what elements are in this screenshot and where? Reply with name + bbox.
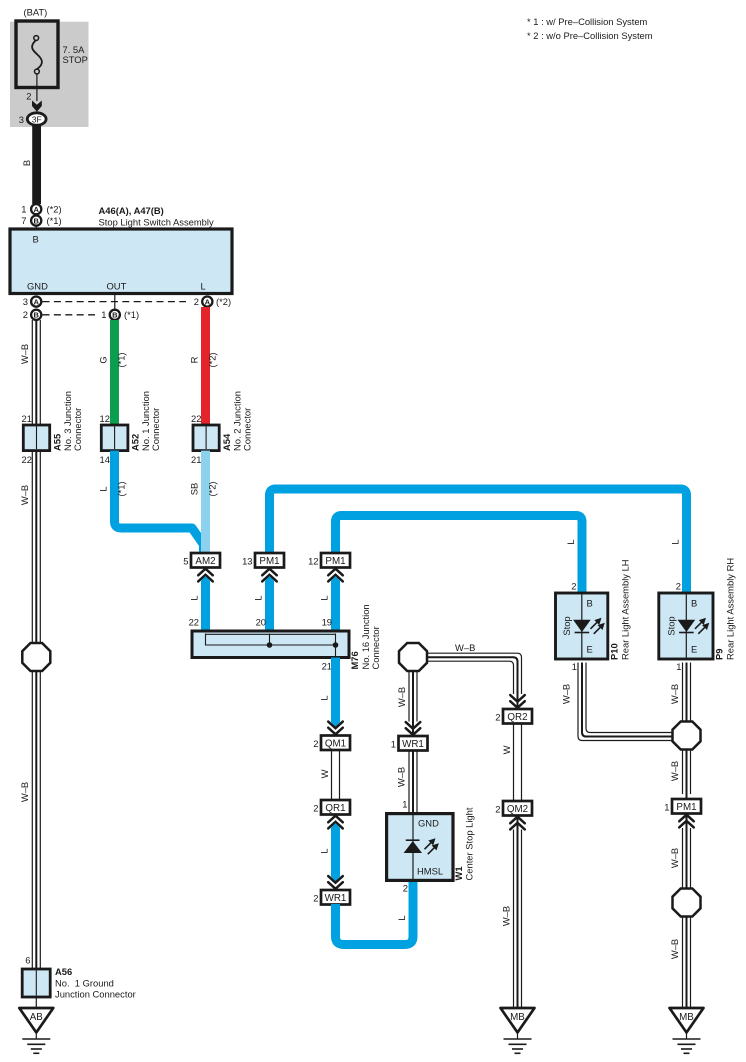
wire W-B splice to QR2 — [426, 653, 522, 709]
wire L AM2 to M76 — [201, 576, 210, 631]
svg-text:PM1: PM1 — [676, 802, 696, 813]
svg-text:Connector: Connector — [242, 408, 253, 451]
wire W-B PM1 to splice 2 — [683, 814, 691, 890]
svg-text:MB: MB — [510, 1012, 525, 1023]
svg-text:1: 1 — [572, 661, 577, 672]
svg-text:B: B — [691, 598, 697, 609]
arrow chevrons up at QR1 — [328, 816, 343, 829]
svg-text:3F: 3F — [32, 114, 42, 124]
dashed link pin 2B to pin 1B — [43, 314, 96, 316]
svg-text:QM1: QM1 — [325, 738, 346, 749]
svg-text:* 1 : w/ Pre–Collision System: * 1 : w/ Pre–Collision System — [527, 16, 648, 27]
wire L from A52 to AM2 (*1) — [115, 451, 204, 553]
svg-text:W: W — [501, 745, 512, 754]
svg-text:Connector: Connector — [72, 408, 83, 451]
svg-text:P10: P10 — [609, 643, 620, 660]
svg-text:A52: A52 — [130, 434, 141, 451]
svg-text:QR1: QR1 — [325, 803, 345, 814]
wire L PM1-12 to M76 — [331, 576, 340, 631]
connector PM1-12 — [321, 553, 350, 568]
svg-text:(*1): (*1) — [116, 481, 127, 496]
wire G from switch OUT (*1) — [110, 320, 119, 425]
svg-text:2: 2 — [495, 712, 500, 723]
svg-text:W–B: W–B — [19, 782, 30, 802]
junction dot M76 pin20 — [267, 642, 273, 648]
svg-text:GND: GND — [418, 818, 439, 829]
svg-text:Rear Light Assembly LH: Rear Light Assembly LH — [620, 559, 631, 660]
LED of P10 — [573, 620, 591, 632]
internal bus of M76 — [206, 634, 336, 657]
svg-text:1: 1 — [402, 799, 407, 810]
svg-text:21: 21 — [322, 661, 332, 672]
svg-text:22: 22 — [189, 617, 199, 628]
svg-text:W–B: W–B — [19, 485, 30, 505]
wire W-B P9 down — [683, 663, 691, 723]
svg-text:W–B: W–B — [455, 642, 475, 653]
connector A55 No.3 Junction Connector — [23, 425, 49, 451]
svg-text:Connector: Connector — [150, 408, 161, 451]
connector AM2 — [191, 553, 220, 568]
wire fuse to connector 3F — [36, 74, 38, 101]
svg-text:19: 19 — [322, 617, 332, 628]
svg-text:STOP: STOP — [63, 54, 88, 65]
svg-text:A54: A54 — [221, 433, 232, 451]
wire L trunk PM1-13 to P9 — [270, 489, 687, 593]
svg-text:(*2): (*2) — [216, 296, 231, 307]
wire L WR1 to W1 pin 2 — [336, 881, 414, 945]
svg-text:14: 14 — [100, 454, 110, 465]
wire W-B P10 to splice — [578, 663, 673, 741]
svg-text:W1: W1 — [453, 866, 464, 880]
svg-text:Stop Light Switch Assembly: Stop Light Switch Assembly — [99, 217, 214, 228]
svg-text:(BAT): (BAT) — [24, 7, 48, 18]
svg-text:B: B — [112, 311, 118, 320]
wire W-B splice to WR1-1 — [409, 671, 417, 736]
svg-text:1: 1 — [101, 309, 106, 320]
connector A54 No.2 Junction Connector — [193, 425, 219, 451]
LED of W1 — [404, 841, 422, 853]
svg-text:2: 2 — [313, 803, 318, 814]
svg-text:* 2 : w/o Pre–Collision System: * 2 : w/o Pre–Collision System — [527, 30, 653, 41]
arrow chevrons down at QR2 — [510, 695, 525, 708]
svg-text:3: 3 — [23, 296, 28, 307]
svg-text:2: 2 — [403, 883, 408, 894]
tick OUT pin — [114, 294, 116, 310]
svg-text:B: B — [587, 598, 593, 609]
svg-text:12: 12 — [308, 556, 318, 567]
svg-text:2: 2 — [676, 581, 681, 592]
svg-text:2: 2 — [313, 893, 318, 904]
svg-text:R: R — [189, 356, 200, 363]
svg-text:GND: GND — [27, 281, 48, 292]
connector QM1 — [321, 736, 350, 751]
wire W-B splice to PM1 — [683, 750, 691, 800]
svg-text:W–B: W–B — [396, 687, 407, 707]
svg-text:SB: SB — [189, 483, 200, 496]
LED of P9 — [678, 620, 696, 632]
svg-text:6: 6 — [25, 955, 30, 966]
svg-text:E: E — [587, 644, 593, 655]
wire R from switch L (*2) — [201, 307, 210, 425]
wire L QR1 to WR1 — [331, 823, 340, 872]
connector 3F — [27, 113, 46, 125]
svg-text:A55: A55 — [52, 434, 63, 451]
arrow chevrons up at PM1-right — [679, 815, 694, 828]
svg-text:2: 2 — [571, 581, 576, 592]
svg-text:A46(A), A47(B): A46(A), A47(B) — [99, 205, 164, 216]
svg-text:W–B: W–B — [669, 848, 680, 868]
svg-text:2: 2 — [194, 296, 199, 307]
svg-text:L: L — [189, 595, 200, 600]
svg-text:12: 12 — [100, 413, 110, 424]
svg-text:L: L — [396, 915, 407, 920]
svg-text:(*2): (*2) — [47, 204, 62, 215]
svg-text:2: 2 — [23, 309, 28, 320]
connector A52 No.1 Junction Connector — [101, 425, 128, 451]
svg-text:Stop: Stop — [666, 616, 677, 635]
svg-text:PM1: PM1 — [259, 556, 279, 567]
svg-text:Junction Connector: Junction Connector — [55, 989, 136, 1000]
wire W-B switch GND to A55 — [32, 320, 40, 425]
wire W-B WR1-1 to W1 — [409, 751, 417, 814]
wire L M76 to QM1 — [331, 658, 340, 728]
svg-text:AM2: AM2 — [195, 556, 215, 567]
svg-text:1: 1 — [676, 661, 681, 672]
arrow chevrons up at PM1-12 — [328, 569, 343, 582]
svg-text:E: E — [691, 644, 697, 655]
svg-text:M76: M76 — [349, 651, 360, 669]
svg-text:L: L — [201, 281, 206, 292]
svg-text:W–B: W–B — [669, 684, 680, 704]
fuse 7.5A STOP — [16, 21, 58, 88]
dashed link pin 3A to pin 2A — [43, 301, 187, 303]
svg-text:W–B: W–B — [669, 939, 680, 959]
svg-text:A56: A56 — [55, 966, 72, 977]
svg-text:PM1: PM1 — [325, 556, 345, 567]
svg-text:2: 2 — [26, 91, 31, 102]
svg-text:L: L — [670, 539, 681, 544]
svg-text:G: G — [98, 356, 109, 363]
wire W-B QM2 to ground MB — [514, 816, 522, 1009]
rear light assembly RH P9 — [659, 593, 713, 659]
ground MB center — [501, 1008, 535, 1053]
connector WR1-1 — [399, 736, 428, 751]
connector PM1-right — [672, 799, 701, 814]
power block (BAT) background — [10, 22, 89, 127]
svg-text:L: L — [319, 595, 330, 600]
svg-text:W–B: W–B — [669, 761, 680, 781]
junction left W-B splice — [22, 643, 50, 671]
wire L PM1-13 to M76 — [265, 576, 274, 631]
svg-text:L: L — [98, 486, 109, 491]
arrow chevrons down at WR1-2 — [328, 876, 343, 889]
junction connector M76 No.16 — [192, 631, 349, 658]
arrow chevrons up at AM2 — [198, 569, 213, 582]
svg-text:W–B: W–B — [396, 767, 407, 787]
svg-text:(*1): (*1) — [124, 309, 139, 320]
svg-text:(*2): (*2) — [207, 352, 218, 367]
junction right W-B splice lower — [673, 889, 701, 917]
rear light assembly LH P10 — [556, 593, 608, 659]
arrow chevrons down at WR1-1 — [406, 722, 421, 735]
wire W QM1 to QR1 — [332, 750, 340, 800]
svg-text:Connector: Connector — [370, 626, 381, 669]
svg-text:13: 13 — [242, 556, 252, 567]
wire W-B A55 to junction — [32, 451, 40, 644]
svg-text:No. 1 Ground: No. 1 Ground — [55, 978, 114, 989]
junction center W-B splice — [399, 643, 427, 671]
pin 2 connector B below switch GND — [31, 310, 41, 320]
svg-text:1: 1 — [21, 204, 26, 215]
svg-text:WR1: WR1 — [325, 893, 347, 904]
svg-text:B: B — [33, 217, 39, 226]
svg-text:3: 3 — [19, 114, 24, 125]
svg-text:Rear Light Assembly RH: Rear Light Assembly RH — [725, 558, 736, 660]
svg-text:OUT: OUT — [107, 281, 127, 292]
svg-text:L: L — [253, 595, 264, 600]
svg-text:22: 22 — [22, 454, 32, 465]
svg-text:A: A — [205, 298, 211, 307]
connector QR1 — [321, 800, 350, 815]
wire B from 3F to stop light switch — [32, 125, 41, 204]
svg-text:20: 20 — [256, 617, 266, 628]
ground MB right — [670, 1008, 704, 1053]
svg-text:P9: P9 — [714, 649, 725, 660]
wire L trunk PM1-12 to P10 — [336, 516, 583, 594]
svg-text:W: W — [319, 769, 330, 778]
svg-text:(*1): (*1) — [47, 215, 62, 226]
svg-text:QR2: QR2 — [507, 712, 527, 723]
junction right W-B splice upper — [673, 722, 701, 750]
svg-text:2: 2 — [495, 804, 500, 815]
svg-text:W–B: W–B — [19, 344, 30, 364]
svg-text:MB: MB — [679, 1012, 694, 1023]
ground AB — [19, 1008, 53, 1053]
svg-text:W–B: W–B — [501, 906, 512, 926]
svg-text:A: A — [33, 205, 39, 214]
svg-text:L: L — [319, 848, 330, 853]
svg-text:AB: AB — [30, 1012, 44, 1023]
arrow chevrons up at QM2 — [510, 817, 525, 830]
svg-text:WR1: WR1 — [402, 739, 424, 750]
svg-text:7: 7 — [21, 215, 26, 226]
pin 1 connector B below switch OUT — [110, 310, 120, 320]
svg-text:B: B — [33, 311, 39, 320]
connector QR2 — [503, 709, 532, 724]
svg-text:HMSL: HMSL — [417, 866, 443, 877]
svg-text:1: 1 — [664, 802, 669, 813]
connector WR1-2 — [321, 890, 350, 905]
wire A56 to ground AB — [35, 997, 37, 1008]
svg-text:(*2): (*2) — [207, 481, 218, 496]
svg-text:5: 5 — [183, 556, 188, 567]
svg-text:B: B — [33, 234, 39, 245]
svg-text:L: L — [319, 695, 330, 700]
connector PM1-13 — [255, 553, 284, 568]
svg-text:22: 22 — [191, 413, 201, 424]
svg-text:21: 21 — [22, 413, 32, 424]
svg-text:Stop: Stop — [561, 616, 572, 635]
svg-text:W–B: W–B — [561, 684, 572, 704]
pin 7 connector B of switch — [31, 216, 41, 226]
center stop light W1 — [387, 814, 453, 881]
pin 1 connector A of switch — [31, 204, 41, 214]
arrow chevrons up at PM1-13 — [262, 569, 277, 582]
wire SB from A54 to AM2 (*2) — [201, 451, 210, 553]
pin 3 connector A below switch GND — [31, 297, 41, 307]
svg-text:L: L — [565, 539, 576, 544]
svg-text:B: B — [21, 160, 32, 166]
wire W-B junction to A56 — [32, 671, 40, 969]
wire W QR2 to QM2 — [514, 724, 522, 802]
switch assembly box A46/A47 — [10, 229, 232, 294]
svg-text:(*1): (*1) — [116, 352, 127, 367]
svg-text:1: 1 — [391, 739, 396, 750]
arrow into 3F — [32, 101, 42, 112]
svg-text:QM2: QM2 — [507, 804, 528, 815]
svg-text:2: 2 — [313, 738, 318, 749]
arrow chevrons down at QM1 — [328, 722, 343, 735]
svg-text:21: 21 — [191, 454, 201, 465]
svg-text:Center Stop Light: Center Stop Light — [464, 807, 475, 880]
connector A56 No.1 Ground Junction Connector — [22, 969, 50, 997]
svg-text:A: A — [33, 298, 39, 307]
junction dot M76 pin19 — [333, 642, 339, 648]
pin 2 connector A below switch L — [202, 297, 212, 307]
wire W-B to MB right — [683, 917, 691, 1009]
connector QM2 — [503, 801, 532, 816]
